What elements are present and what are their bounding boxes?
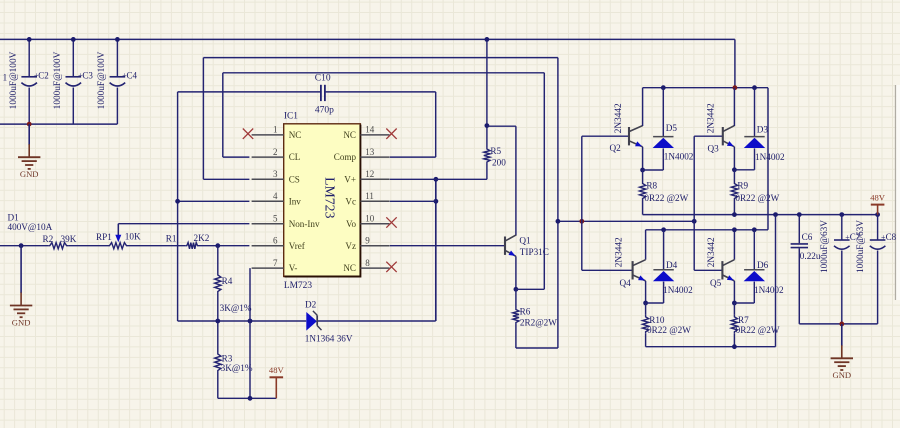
no-connect X pin8 <box>386 262 396 272</box>
svg-text:Q4: Q4 <box>620 278 632 288</box>
junction dot V- at 48V row <box>248 396 253 401</box>
svg-text:D2: D2 <box>305 300 317 310</box>
svg-text:D1: D1 <box>8 213 20 223</box>
pin 7 V- <box>252 267 284 269</box>
svg-text:2N3442: 2N3442 <box>614 103 624 133</box>
resistor R6 2R2@2W <box>515 289 517 307</box>
junction dot Q5 emitter <box>732 301 737 306</box>
svg-text:0R22 @2W: 0R22 @2W <box>735 193 779 203</box>
wire pin13 Comp <box>390 156 436 158</box>
wire pin4 Inv <box>178 200 250 202</box>
capacitor C6 0.22u <box>798 215 800 244</box>
svg-text:Comp: Comp <box>334 152 357 162</box>
junction dot Q4 emitter <box>643 301 648 306</box>
capacitor C7 1000uF@63V <box>841 215 843 240</box>
wire Q1 emitter to CL loop <box>516 288 544 290</box>
no-connect X pin14 <box>386 129 396 139</box>
junction dot Q3 emitter <box>732 167 737 172</box>
wire pin9 Vz to Q1 base <box>390 245 505 247</box>
svg-text:0R22 @2W: 0R22 @2W <box>647 325 691 335</box>
svg-text:3K@1%: 3K@1% <box>221 363 253 373</box>
op-amp regulator IC1 LM723 body <box>284 124 361 277</box>
svg-text:C3: C3 <box>82 70 93 80</box>
diode D6 1N4002 <box>753 230 755 270</box>
svg-text:Q3: Q3 <box>708 143 720 153</box>
svg-text:0R22 @2W: 0R22 @2W <box>736 325 780 335</box>
pin 13 Comp <box>360 156 389 158</box>
wire Q1 emitter <box>515 256 517 289</box>
svg-text:LM723: LM723 <box>323 177 338 218</box>
svg-text:D6: D6 <box>757 260 769 270</box>
resistor R10 0R22@2W <box>645 303 647 315</box>
svg-text:Q5: Q5 <box>710 278 722 288</box>
resistor R2 39K <box>48 243 68 249</box>
svg-text:48V: 48V <box>269 365 285 375</box>
wire C10 net (pin13 comp / pin4 inv) <box>178 91 321 93</box>
junction dot Q1 emitter <box>514 287 519 292</box>
svg-text:R10: R10 <box>649 315 665 325</box>
power port 48V (output) <box>877 205 879 215</box>
pin 12 V+ <box>360 178 389 180</box>
svg-text:D3: D3 <box>757 125 769 135</box>
wire base column right (Q3/Q5) <box>693 136 695 270</box>
svg-text:D4: D4 <box>666 260 678 270</box>
svg-text:2N3442: 2N3442 <box>614 237 624 267</box>
svg-text:Q1: Q1 <box>519 235 531 245</box>
svg-text:12: 12 <box>365 169 374 179</box>
wire collector row Q4/Q5 <box>646 229 768 231</box>
svg-text:R6: R6 <box>520 306 531 316</box>
pin 5 Non-Inv <box>252 223 284 225</box>
svg-text:400V@10A: 400V@10A <box>8 222 53 232</box>
power port 48V (left) <box>275 377 277 398</box>
resistor R7 0R22@2W <box>733 303 735 315</box>
wire pin12 V+ to R5 <box>390 178 487 180</box>
svg-text:0.22u: 0.22u <box>800 251 821 261</box>
pin 14 NC <box>360 134 389 136</box>
pin 1 NC <box>252 134 284 136</box>
svg-text:470p: 470p <box>315 106 334 116</box>
ground GND1 (filter caps) <box>28 124 30 145</box>
capacitor C3 <box>72 39 74 76</box>
diode D5 1N4002 <box>662 88 664 137</box>
svg-text:GND: GND <box>12 317 31 327</box>
pin 4 Inv <box>252 200 284 202</box>
junction dot R1/R4 node <box>215 243 220 248</box>
svg-text:1N4002: 1N4002 <box>755 152 785 162</box>
resistor R4 3K@1% <box>217 246 219 273</box>
junction dot R7 bottom <box>732 344 737 349</box>
svg-text:V-: V- <box>289 263 298 273</box>
transistor Q5 2N3442 <box>694 269 722 271</box>
svg-text:Non-Inv: Non-Inv <box>289 219 320 229</box>
svg-text:Vz: Vz <box>345 241 356 251</box>
transistor Q1 TIP31C <box>504 237 506 255</box>
svg-text:4: 4 <box>273 191 278 201</box>
junction dot cap bottom rail <box>27 122 32 127</box>
wire input rail top (net from C1-C4 to output stage) <box>0 38 735 40</box>
junction dots pin11/pin12 to Vc column <box>435 179 437 321</box>
pin 10 Vo <box>360 223 389 225</box>
svg-text:R5: R5 <box>490 146 501 156</box>
svg-text:13: 13 <box>365 147 375 157</box>
svg-text:1000uF@100V: 1000uF@100V <box>53 51 63 109</box>
svg-text:GND: GND <box>832 370 851 380</box>
wire feedback row with zener <box>178 320 307 322</box>
svg-text:1000uF@100V: 1000uF@100V <box>9 51 19 109</box>
svg-text:CS: CS <box>289 174 300 184</box>
junction dots on input rail <box>27 37 32 42</box>
svg-text:48V: 48V <box>870 193 886 203</box>
svg-text:TIP31C: TIP31C <box>520 247 549 257</box>
transistor Q4 2N3442 <box>582 269 633 271</box>
capacitor C4 <box>116 39 118 76</box>
svg-text:RP1: RP1 <box>96 232 112 242</box>
resistor R9 0R22@2W <box>733 170 735 182</box>
pin 11 Vc <box>360 200 389 202</box>
capacitor C8 1000uF@63V <box>877 215 879 240</box>
svg-text:Vref: Vref <box>289 241 306 251</box>
svg-text:2: 2 <box>273 147 278 157</box>
svg-text:14: 14 <box>365 125 375 135</box>
wire cap bottom rail <box>799 323 877 325</box>
svg-text:1: 1 <box>273 125 278 135</box>
junction dot R5 top at input rail <box>485 37 490 42</box>
svg-text:5: 5 <box>273 214 278 224</box>
wire R5 branch to Q1 collector <box>487 125 516 127</box>
svg-text:6: 6 <box>273 236 278 246</box>
svg-text:8: 8 <box>365 258 370 268</box>
transistor Q3 2N3442 <box>694 135 723 137</box>
no-connect X pin10 <box>386 217 396 227</box>
capacitor C2 <box>28 39 30 76</box>
wire pin11 Vc <box>390 200 436 202</box>
junction dot Q2 emitter <box>640 168 645 173</box>
diode D4 1N4002 <box>663 230 665 270</box>
svg-text:10K: 10K <box>125 232 141 242</box>
svg-text:1000uF@63V: 1000uF@63V <box>856 220 866 273</box>
junction dot R5 branch <box>485 123 490 128</box>
svg-text:1: 1 <box>3 73 8 83</box>
capacitor C10 <box>320 85 322 101</box>
wire RP1 wiper to pin5 Non-Inv <box>118 223 249 225</box>
pin 2 CL <box>252 156 284 158</box>
svg-text:R9: R9 <box>737 181 748 191</box>
junction dots output row <box>732 212 737 217</box>
pin 9 Vz <box>360 245 389 247</box>
svg-text:C10: C10 <box>315 74 331 84</box>
wire R6 bottom to CS loop <box>516 347 558 349</box>
resistor R1 2K2 <box>185 243 199 249</box>
svg-text:C8: C8 <box>886 232 897 242</box>
transistor Q2 2N3442 <box>582 135 629 137</box>
svg-text:1000uF@100V: 1000uF@100V <box>97 51 107 109</box>
svg-text:Vo: Vo <box>346 219 356 229</box>
svg-text:1N4002: 1N4002 <box>754 285 784 295</box>
pin 8 NC <box>360 267 389 269</box>
pin 6 Vref <box>252 245 284 247</box>
svg-text:2K2: 2K2 <box>194 233 210 243</box>
svg-text:R4: R4 <box>222 276 233 286</box>
junction dot Inv/feedback <box>175 199 180 204</box>
svg-text:NC: NC <box>289 130 302 140</box>
wire emitter return row bottom <box>646 346 776 348</box>
svg-text:NC: NC <box>343 263 356 273</box>
svg-text:V+: V+ <box>344 174 356 184</box>
ground GND3 (output) <box>841 324 843 346</box>
svg-text:1N1364 36V: 1N1364 36V <box>305 334 353 344</box>
svg-text:R7: R7 <box>738 315 749 325</box>
svg-text:R2: R2 <box>43 234 54 244</box>
wire base drive row <box>558 220 694 222</box>
diode D3 1N4002 <box>754 88 756 137</box>
svg-text:200: 200 <box>492 157 506 167</box>
svg-text:C4: C4 <box>127 70 138 80</box>
svg-text:Inv: Inv <box>289 196 302 206</box>
resistor R5 200 <box>486 39 488 147</box>
svg-text:3K@1%: 3K@1% <box>220 303 252 313</box>
svg-text:Q2: Q2 <box>610 143 622 153</box>
svg-text:GND: GND <box>20 169 39 179</box>
wire pin7 V- to -48V rail <box>249 268 251 398</box>
pin 3 CS <box>252 178 284 180</box>
junction dots top rail <box>661 85 666 90</box>
svg-text:11: 11 <box>365 191 374 201</box>
wire base column left (Q2/Q4) <box>581 136 583 270</box>
svg-text:CL: CL <box>289 152 301 162</box>
svg-text:2N3442: 2N3442 <box>707 103 717 133</box>
svg-text:D5: D5 <box>666 123 678 133</box>
svg-text:1000uF@63V: 1000uF@63V <box>820 220 830 273</box>
junction dot D1/GND2 <box>19 243 24 248</box>
wire output stage top rail <box>643 87 768 89</box>
svg-text:R1: R1 <box>166 234 177 244</box>
potentiometer RP1 10K <box>108 243 128 249</box>
svg-text:C2: C2 <box>38 70 49 80</box>
resistor R3 3K@1% <box>217 321 219 352</box>
svg-text:C6: C6 <box>802 232 813 242</box>
junction dots feedback row <box>215 319 220 324</box>
junction dots collector row <box>661 227 666 232</box>
svg-text:NC: NC <box>343 130 356 140</box>
svg-text:2N3442: 2N3442 <box>707 237 717 267</box>
wire output row (48V out) <box>643 214 878 216</box>
wire CS loop (pin3 to output current sense) <box>203 57 558 59</box>
wire pin3 CS <box>203 178 249 180</box>
capacitor rail bottom left <box>0 123 117 125</box>
resistor R8 0R22@2W <box>642 170 644 182</box>
svg-text:2R2@2W: 2R2@2W <box>520 317 557 327</box>
svg-text:9: 9 <box>365 236 370 246</box>
svg-text:LM723: LM723 <box>284 281 312 291</box>
svg-text:Vc: Vc <box>345 196 356 206</box>
no-connect X pin1 <box>243 129 253 139</box>
junction dot GND3 <box>839 322 844 327</box>
zener diode D2 1N1364 36V <box>306 312 317 331</box>
svg-text:1N4002: 1N4002 <box>664 152 694 162</box>
node D1 input row <box>0 245 48 247</box>
junction dots base drive <box>556 219 561 224</box>
sheet border edge (right) <box>895 85 897 300</box>
svg-text:3: 3 <box>273 169 278 179</box>
ground GND2 (input) <box>20 246 22 293</box>
svg-text:7: 7 <box>273 258 278 268</box>
wire CL loop (pin2 to Q1 emitter) <box>223 72 545 74</box>
wire bottom 48V row <box>218 397 276 399</box>
svg-text:39K: 39K <box>61 234 77 244</box>
wire pin2 CL <box>223 156 250 158</box>
svg-text:IC1: IC1 <box>284 111 298 121</box>
svg-text:R8: R8 <box>646 181 657 191</box>
svg-text:0R22 @2W: 0R22 @2W <box>644 193 688 203</box>
svg-text:1N4002: 1N4002 <box>663 285 693 295</box>
svg-text:10: 10 <box>365 214 375 224</box>
